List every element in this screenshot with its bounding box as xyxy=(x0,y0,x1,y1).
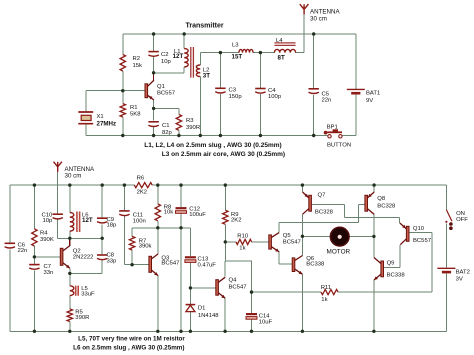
svg-text:ANTENNA: ANTENNA xyxy=(310,9,340,16)
svg-text:Q5: Q5 xyxy=(283,233,292,239)
junction C13/D1/Q4 base node xyxy=(189,286,192,289)
svg-text:C1: C1 xyxy=(162,123,170,129)
svg-text:3V: 3V xyxy=(456,277,463,283)
core L5 xyxy=(76,286,79,296)
label R4 xyxy=(40,231,54,243)
svg-text:C2: C2 xyxy=(161,52,169,58)
svg-text:100p: 100p xyxy=(268,94,282,100)
wire R7-R8-C12 node line xyxy=(132,227,190,229)
svg-text:15k: 15k xyxy=(133,63,143,69)
resistor R9 xyxy=(223,210,228,224)
svg-text:OFF: OFF xyxy=(456,217,468,223)
svg-text:30 cm: 30 cm xyxy=(310,16,327,23)
svg-text:18p: 18p xyxy=(107,223,118,229)
wire C2/L1/Q1 collector node xyxy=(154,72,185,74)
junction R4 top on RX V+ rail xyxy=(33,183,36,186)
motor M1 xyxy=(330,227,349,246)
wire Q9 collector lead xyxy=(373,236,375,257)
label R1 xyxy=(130,105,141,118)
label C14 xyxy=(259,314,273,326)
title Transmitter xyxy=(186,23,224,30)
wire RX antenna lead xyxy=(57,172,59,215)
wire R7 leads xyxy=(131,228,133,265)
capacitor C6 xyxy=(5,243,15,248)
junction C7 bottom on RX ground rail xyxy=(33,330,36,333)
label R7 xyxy=(139,238,152,249)
label ANTENNA RX xyxy=(65,166,95,180)
svg-text:10p: 10p xyxy=(42,218,53,224)
svg-text:X1: X1 xyxy=(97,114,104,120)
svg-text:1k: 1k xyxy=(321,297,327,303)
label C13 xyxy=(198,256,217,268)
svg-text:100uF: 100uF xyxy=(189,212,206,218)
wire C10 bottom lead xyxy=(57,218,59,238)
svg-text:BUTTON: BUTTON xyxy=(327,142,351,148)
resistor R11 xyxy=(321,290,338,295)
svg-text:10uF: 10uF xyxy=(259,320,273,326)
svg-text:30 cm: 30 cm xyxy=(65,173,82,180)
svg-text:27MHz: 27MHz xyxy=(97,120,117,127)
junction C1 bottom on ground rail xyxy=(152,134,155,137)
label L5 xyxy=(81,286,95,298)
junction L2 bottom on ground rail xyxy=(199,134,202,137)
wire C9 leads xyxy=(101,185,103,238)
capacitor C5 xyxy=(309,89,319,94)
svg-text:MOTOR: MOTOR xyxy=(327,249,351,256)
wire Q3 emitter lead xyxy=(157,276,159,332)
wire switch-BAT2 column xyxy=(445,185,447,331)
wire R2-R1 column xyxy=(122,34,124,136)
capacitor C2 xyxy=(148,52,158,57)
wire C14 leads xyxy=(251,292,253,331)
junction Q8 emitter on RX V+ rail xyxy=(372,183,375,186)
label ANTENNA TX xyxy=(310,9,340,23)
resistor R7 xyxy=(129,236,134,250)
transistor Q3 xyxy=(149,254,158,276)
label L3 xyxy=(232,43,243,61)
junction R3 bottom on ground rail xyxy=(177,134,180,137)
junction Q7 emitter on RX V+ rail xyxy=(301,183,304,186)
wire C2 leads xyxy=(153,34,155,73)
svg-text:15T: 15T xyxy=(232,54,243,61)
wire R3 leads xyxy=(178,108,180,135)
capacitor C3 xyxy=(215,88,225,93)
svg-text:33p: 33p xyxy=(107,258,118,264)
junction R5 bottom on RX ground rail xyxy=(68,330,71,333)
svg-text:R1: R1 xyxy=(130,105,138,111)
wire C13 leads xyxy=(189,228,191,288)
svg-text:22n: 22n xyxy=(18,248,28,254)
junction C12 top on RX V+ rail xyxy=(179,183,182,186)
svg-text:BC547: BC547 xyxy=(283,240,301,246)
svg-text:BC338: BC338 xyxy=(387,273,406,279)
capacitor C1 xyxy=(148,122,158,127)
wire R4 column xyxy=(33,185,35,257)
label D1 xyxy=(198,306,219,320)
resistor R10 xyxy=(236,239,252,244)
svg-text:L1, L2, L4 on 2.5mm slug , AWG: L1, L2, L4 on 2.5mm slug , AWG 30 (0.25m… xyxy=(144,142,281,149)
wire C4 leads xyxy=(259,53,261,136)
label L1 xyxy=(173,49,184,60)
svg-text:C4: C4 xyxy=(268,88,276,94)
svg-text:R4: R4 xyxy=(40,231,48,237)
svg-text:150p: 150p xyxy=(229,94,243,100)
svg-text:R2: R2 xyxy=(133,56,141,62)
transistor Q7 (mirrored PNP) xyxy=(303,192,312,214)
wire motor right xyxy=(349,235,374,237)
label Q10 xyxy=(413,226,431,244)
junction Q2 emitter/C8/L5 node xyxy=(68,272,71,275)
junction R4/C7/Q2 base node xyxy=(33,255,36,258)
transistor Q4 xyxy=(216,277,225,298)
svg-text:L3: L3 xyxy=(232,43,239,49)
battery BAT1 xyxy=(347,89,365,93)
svg-text:Transmitter: Transmitter xyxy=(186,23,224,30)
svg-text:0.47uF: 0.47uF xyxy=(198,263,217,269)
svg-text:L3 on 2.5mm air core, AWG 30 (: L3 on 2.5mm air core, AWG 30 (0.25mm) xyxy=(162,151,285,158)
junction Q1 base node xyxy=(121,89,124,92)
pushbutton BP1 xyxy=(324,129,342,138)
svg-text:Q8: Q8 xyxy=(377,196,386,202)
note TX L3 xyxy=(162,151,285,158)
wire Q1 base node xyxy=(86,90,145,92)
capacitor C13 (electrolytic) xyxy=(185,256,196,262)
wire Q4 base node xyxy=(190,287,215,289)
wire Q6 collector lead xyxy=(301,236,303,255)
wire Q7 collector lead xyxy=(301,214,303,236)
junction L6/Q2 collector node xyxy=(68,237,71,240)
junction R9 top on RX V+ rail xyxy=(224,183,227,186)
wire Q3 base node xyxy=(124,264,148,266)
svg-text:BC547: BC547 xyxy=(229,285,247,291)
svg-text:Q9: Q9 xyxy=(387,261,395,267)
svg-text:BC338: BC338 xyxy=(306,262,325,268)
label Q4 xyxy=(229,277,247,290)
label R9 xyxy=(231,212,241,224)
wire R10 wire xyxy=(225,241,268,243)
junction C3 bottom on ground rail xyxy=(219,134,222,137)
junction C11 top on RX V+ rail xyxy=(123,183,126,186)
junction Q4 emitter on RX ground rail xyxy=(223,330,226,333)
wire L2 leads xyxy=(199,53,201,136)
junction C12 bottom on RX ground rail xyxy=(179,330,182,333)
svg-text:2K2: 2K2 xyxy=(231,218,241,224)
svg-text:BC328: BC328 xyxy=(315,210,334,216)
resistor R4 xyxy=(32,229,37,246)
junction C9 top on RX V+ rail xyxy=(101,183,104,186)
junction C14/R11 node xyxy=(250,290,253,293)
transistor Q5 xyxy=(269,233,279,252)
wire X1 column xyxy=(85,91,87,136)
wire RX V+ rail xyxy=(10,184,447,186)
wire C3 leads xyxy=(219,53,221,136)
label Q9 xyxy=(387,261,406,279)
label BAT1 xyxy=(366,91,380,105)
svg-text:C3: C3 xyxy=(229,87,237,93)
svg-text:BP1: BP1 xyxy=(327,124,338,130)
label R11 xyxy=(321,285,331,303)
wire BAT1 leads xyxy=(355,34,357,136)
transistor Q8 (PNP) xyxy=(365,192,374,214)
wire Q2 base node xyxy=(34,256,60,258)
svg-text:3T: 3T xyxy=(203,73,210,80)
capacitor C12 (electrolytic) xyxy=(176,207,187,213)
label BP1 xyxy=(327,124,352,148)
inductor L5 xyxy=(70,286,74,296)
resistor R1 xyxy=(120,104,125,117)
capacitor C7 xyxy=(29,265,39,270)
inductor L2 xyxy=(196,65,200,77)
note TX coils xyxy=(144,142,281,149)
label Q2 xyxy=(73,249,94,261)
label C8 xyxy=(107,253,118,265)
svg-text:8T: 8T xyxy=(278,55,285,62)
wire Q2 emitter node xyxy=(70,272,102,274)
label Q5 xyxy=(283,233,301,246)
transistor Q6 xyxy=(292,256,302,275)
svg-text:12T: 12T xyxy=(173,53,184,60)
svg-text:C14: C14 xyxy=(259,314,271,320)
svg-text:Q4: Q4 xyxy=(229,277,238,283)
wire C6 leads xyxy=(9,185,11,331)
wire L1 leads xyxy=(183,34,185,73)
svg-text:12T: 12T xyxy=(82,217,93,224)
wire C11 leads xyxy=(123,185,125,265)
svg-text:390R: 390R xyxy=(186,125,200,131)
junction C5 top on V+ rail xyxy=(312,32,315,35)
wire Q7 base link xyxy=(311,204,399,223)
svg-text:C11: C11 xyxy=(133,212,143,218)
wire D1 leads xyxy=(189,288,191,331)
capacitor C8 xyxy=(97,255,107,260)
inductor L1 xyxy=(184,49,188,67)
label Q7 xyxy=(315,193,334,216)
diode D1 xyxy=(186,305,196,312)
junction R8/Q3 collector node xyxy=(156,226,159,229)
junction L3/L4/C4 tank node xyxy=(259,51,262,54)
wire Q2 collector node line xyxy=(58,237,102,239)
transistor Q10 (mirrored PNP) xyxy=(400,223,409,245)
label X1 xyxy=(97,114,117,127)
wire Q8 collector lead xyxy=(373,215,375,237)
junction C4 bottom on ground rail xyxy=(259,134,262,137)
svg-text:33uF: 33uF xyxy=(81,291,95,297)
junction motor right node xyxy=(372,235,375,238)
svg-text:9V: 9V xyxy=(366,98,373,104)
label MOTOR xyxy=(327,249,351,256)
wire L5-R5 column xyxy=(69,268,71,331)
switch SW1 ON/OFF xyxy=(445,210,452,230)
transistor Q1 xyxy=(145,73,154,100)
antenna TX xyxy=(300,4,309,14)
transistor Q2 xyxy=(60,238,70,268)
label Q6 xyxy=(306,256,325,268)
svg-text:BAT2: BAT2 xyxy=(456,270,470,276)
svg-text:BC547: BC547 xyxy=(161,260,179,266)
wire R11 wire xyxy=(252,233,433,293)
svg-text:ON: ON xyxy=(456,211,465,217)
label C1 xyxy=(162,123,173,136)
svg-text:D1: D1 xyxy=(198,306,206,312)
wire RX bottom rail xyxy=(10,330,447,332)
wire L6 leads xyxy=(69,185,71,238)
inductor L4 xyxy=(274,49,295,52)
junction L2/L3/C3 tank node xyxy=(219,51,222,54)
capacitor C9 xyxy=(97,218,107,223)
junction C2/L1/Q1 collector node xyxy=(152,71,155,74)
note RX L6 xyxy=(73,345,184,352)
junction motor left node xyxy=(301,235,304,238)
wire Q9 emitter lead xyxy=(373,280,375,331)
svg-text:R6: R6 xyxy=(137,175,145,181)
svg-text:R10: R10 xyxy=(237,233,249,239)
wire Q8 emitter lead xyxy=(373,185,375,192)
label BAT2 xyxy=(456,270,470,283)
label R2 xyxy=(133,56,143,69)
wire R8 leads xyxy=(157,185,159,228)
wire Q4 collector lead xyxy=(224,261,226,276)
svg-text:R3: R3 xyxy=(186,118,194,124)
label C2 xyxy=(161,52,172,65)
label C5 xyxy=(322,91,332,103)
svg-text:33n: 33n xyxy=(44,270,54,276)
svg-text:C5: C5 xyxy=(322,91,330,97)
wire motor left xyxy=(302,235,330,237)
svg-text:82p: 82p xyxy=(162,130,173,136)
label R6 xyxy=(137,175,147,195)
wire Q6 emitter lead xyxy=(301,274,303,331)
junction Q6 emitter on RX ground rail xyxy=(301,330,304,333)
crystal X1 xyxy=(78,112,93,124)
svg-text:10p: 10p xyxy=(161,59,172,65)
wire Q1 emitter node xyxy=(154,100,179,121)
wire Q5 emitter to Q6 base xyxy=(279,252,292,264)
junction C9/C8 node xyxy=(101,237,104,240)
capacitor C4 xyxy=(255,89,265,94)
junction L1 top on V+ rail xyxy=(183,32,186,35)
svg-text:100n: 100n xyxy=(133,219,146,225)
junction R8 top on RX V+ rail xyxy=(156,183,159,186)
wire Q5 collector link xyxy=(279,204,365,232)
junction R7/C11/Q3 base node xyxy=(130,263,133,266)
inductor L6 xyxy=(70,213,74,232)
junction Q9 emitter on RX ground rail xyxy=(372,330,375,333)
junction C14 bottom on RX ground rail xyxy=(250,330,253,333)
label C7 xyxy=(44,264,54,276)
resistor R6 xyxy=(134,183,152,188)
svg-text:BAT1: BAT1 xyxy=(366,91,380,97)
capacitor C14 (electrolytic) xyxy=(246,313,257,319)
svg-text:BC557: BC557 xyxy=(157,91,175,97)
svg-text:390R: 390R xyxy=(75,315,89,321)
wire C7 leads xyxy=(33,257,35,331)
wire C12 column xyxy=(180,185,182,331)
svg-text:390k: 390k xyxy=(139,244,152,250)
svg-text:C13: C13 xyxy=(198,256,210,262)
wire Q3 collector lead xyxy=(157,228,159,254)
label Q3 xyxy=(161,256,179,267)
wire TX V+ top rail xyxy=(123,33,356,35)
wire C1 bottom lead xyxy=(153,127,155,136)
svg-text:2N2222: 2N2222 xyxy=(73,255,94,261)
label L2 xyxy=(203,68,210,80)
label C4 xyxy=(268,88,282,100)
wire R9 leads xyxy=(224,185,226,242)
svg-text:1k: 1k xyxy=(239,246,245,252)
wire C5 leads xyxy=(313,34,315,136)
wire TX bottom rail xyxy=(86,135,356,137)
resistor R8 xyxy=(155,204,160,221)
resistor R2 xyxy=(120,55,125,72)
wire C8 leads xyxy=(101,238,103,273)
junction R9/R10 node xyxy=(224,240,227,243)
junction Q3 emitter on RX ground rail xyxy=(156,330,159,333)
core L4 xyxy=(274,43,295,46)
core L1-L2 xyxy=(191,47,194,78)
capacitor C10 xyxy=(53,214,63,219)
svg-text:BC328: BC328 xyxy=(377,203,396,209)
resistor R5 xyxy=(67,309,72,322)
svg-text:Q1: Q1 xyxy=(157,84,165,90)
svg-text:5K8: 5K8 xyxy=(130,112,141,118)
label ON OFF xyxy=(456,211,468,223)
svg-text:22n: 22n xyxy=(322,98,332,104)
wire Q4 emitter lead xyxy=(224,298,226,331)
junction D1 anode on RX ground rail xyxy=(189,330,192,333)
wire R9-C14 link xyxy=(225,242,251,292)
antenna RX xyxy=(54,162,62,172)
svg-text:BC557: BC557 xyxy=(413,238,431,244)
junction L6 top on RX V+ rail xyxy=(68,183,71,186)
label C12 xyxy=(189,206,206,218)
wire TX tank line xyxy=(200,52,304,54)
junction C2 top on V+ rail xyxy=(152,32,155,35)
battery BAT2 xyxy=(437,268,455,272)
label L6 xyxy=(82,213,93,225)
inductor L3 xyxy=(239,49,253,52)
junction R1 bottom on ground rail xyxy=(121,134,124,137)
note RX L5 xyxy=(78,335,185,342)
svg-text:L5, 70T very fine wire on 1M r: L5, 70T very fine wire on 1M reisitor xyxy=(78,335,185,342)
svg-text:L6 on 2.5mm slug , AWG 30 (0.2: L6 on 2.5mm slug , AWG 30 (0.25mm) xyxy=(73,345,184,352)
svg-text:10k: 10k xyxy=(164,210,174,216)
svg-text:Q10: Q10 xyxy=(413,226,425,232)
label R3 xyxy=(186,118,200,131)
label R10 xyxy=(237,233,249,251)
core L6 xyxy=(77,212,80,233)
label Q8 xyxy=(377,196,396,209)
junction C5 bottom on ground rail xyxy=(312,134,315,137)
capacitor C11 xyxy=(119,211,129,216)
label C11 xyxy=(133,212,146,224)
label C6 xyxy=(18,242,28,254)
svg-text:1N4148: 1N4148 xyxy=(198,313,219,319)
transistor Q9 (mirrored NPN) xyxy=(374,258,384,281)
junction C12 tap node xyxy=(179,226,182,229)
svg-text:R11: R11 xyxy=(321,285,331,291)
label R5 xyxy=(75,309,89,321)
wire Q9 base to Q10 collector xyxy=(383,245,400,268)
label C9 xyxy=(107,217,118,229)
label C3 xyxy=(229,87,243,100)
svg-text:390K: 390K xyxy=(40,237,54,243)
svg-text:L4: L4 xyxy=(276,38,283,44)
label L4 xyxy=(276,38,285,62)
junction Q1 emitter node xyxy=(152,107,155,110)
label R8 xyxy=(164,205,174,216)
label C10 xyxy=(41,212,53,224)
svg-text:Q7: Q7 xyxy=(318,193,326,199)
